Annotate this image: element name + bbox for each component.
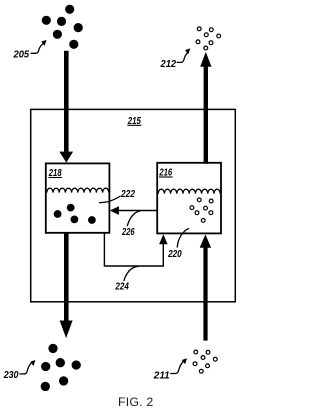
svg-text:222: 222 [120, 188, 135, 200]
svg-text:FIG. 2: FIG. 2 [118, 395, 153, 409]
svg-text:220: 220 [167, 248, 181, 260]
svg-text:205: 205 [13, 48, 30, 60]
svg-text:211: 211 [153, 370, 170, 382]
svg-text:224: 224 [115, 281, 129, 293]
svg-text:212: 212 [160, 58, 177, 70]
svg-text:230: 230 [3, 369, 19, 381]
svg-text:226: 226 [121, 226, 134, 238]
